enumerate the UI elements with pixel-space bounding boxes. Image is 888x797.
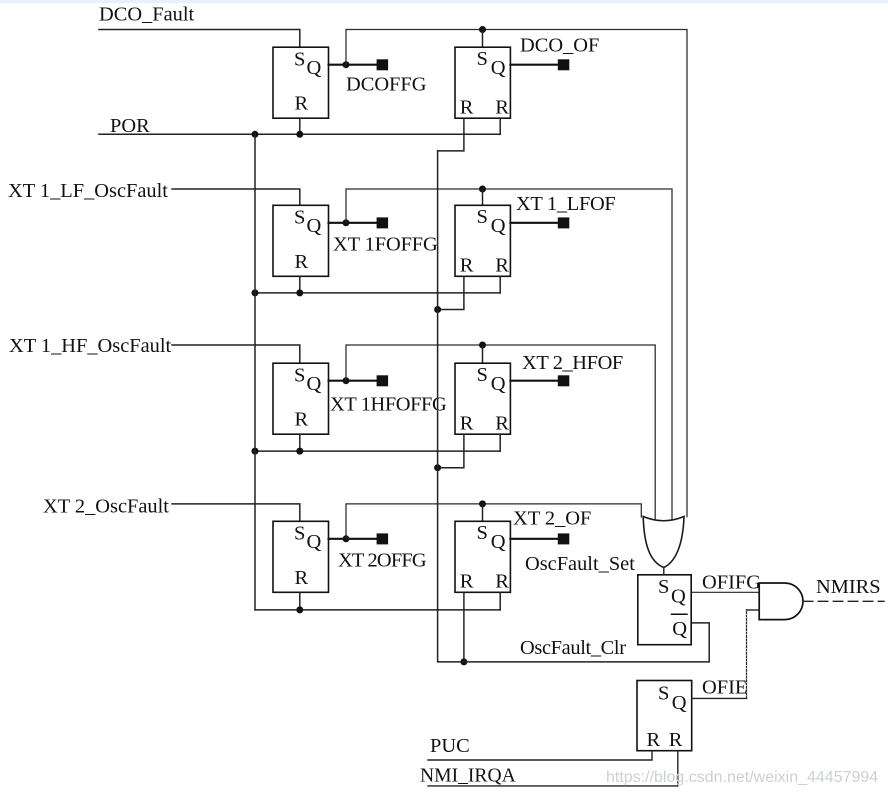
wire U6.R right pin to reset line xyxy=(499,434,501,451)
terminal square XT 2OFFG xyxy=(377,533,389,544)
svg-text:Q: Q xyxy=(491,373,506,395)
svg-text:R: R xyxy=(495,413,509,435)
junction OscFault_Clr U8.R xyxy=(460,658,467,665)
wire PUC to U10.R xyxy=(428,751,652,760)
svg-text:R: R xyxy=(460,97,474,119)
junction DCOFFG node xyxy=(343,61,350,68)
OR gate G1 (4-input, points down) xyxy=(643,517,684,568)
wire U8.S pin xyxy=(482,504,484,521)
svg-text:DCOFFG: DCOFFG xyxy=(346,74,427,96)
svg-text:OFIFG: OFIFG xyxy=(702,572,761,594)
svg-text:S: S xyxy=(477,522,488,544)
svg-text:XT 2_HFOF: XT 2_HFOF xyxy=(522,352,623,374)
wire U6.S pin xyxy=(482,345,484,363)
terminal square XT 2_HFOF xyxy=(558,375,570,386)
wire U2.Q to flag DCO_OF xyxy=(510,64,557,66)
wire DCOFFG up-over to U2.S and OR gate G1 xyxy=(346,30,687,517)
svg-text:R: R xyxy=(460,571,474,593)
svg-text:R: R xyxy=(295,93,309,115)
svg-text:XT 1HFOFFG: XT 1HFOFFG xyxy=(330,393,447,415)
junction U7.R row4 xyxy=(296,606,303,613)
svg-text:Q: Q xyxy=(307,57,322,79)
wire XT 1_LF_OscFault to U3.S xyxy=(172,189,300,205)
svg-text:R: R xyxy=(295,409,309,431)
latch U3 (XT 1FOFFG SR latch) xyxy=(273,205,329,276)
wire U4.R left pin to clear bus xyxy=(438,276,464,309)
wire NMI_IRQA to U10.R xyxy=(428,751,678,786)
terminal square XT 1_LFOF xyxy=(558,217,570,228)
wire U6.R left pin to clear bus xyxy=(438,434,464,468)
svg-text:R: R xyxy=(460,413,474,435)
terminal square XT 1HFOFFG xyxy=(377,375,389,386)
junction clear bus row2 xyxy=(434,306,441,313)
wire U2.R right pin to reset line xyxy=(499,118,501,134)
wire XT 1FOFFG up-over to U4.S and OR gate G1 xyxy=(346,189,672,520)
svg-text:XT 1_LFOF: XT 1_LFOF xyxy=(516,193,615,215)
junction U3.R row2 xyxy=(296,289,303,296)
wire U9.Q (OFIFG) to AND gate G2 xyxy=(691,591,759,593)
wire U4.S pin xyxy=(482,189,484,205)
wire U10.Q (OFIE) xyxy=(692,697,747,699)
wire U8.R right pin to reset line xyxy=(499,592,501,610)
junction clear bus row3 xyxy=(434,464,441,471)
svg-text:Q: Q xyxy=(307,531,322,553)
svg-text:S: S xyxy=(477,48,488,70)
svg-text:XT 1FOFFG: XT 1FOFFG xyxy=(333,233,438,255)
latch U6 (XT 2_HFOF SR latch) xyxy=(455,363,510,434)
svg-text:R: R xyxy=(295,251,309,273)
svg-text:OscFault_Set: OscFault_Set xyxy=(525,553,635,575)
latch U9 (OFIFG SR latch) xyxy=(638,575,691,645)
wire U4.R right pin to reset line xyxy=(499,276,501,293)
terminal square DCOFFG xyxy=(377,59,389,70)
svg-text:S: S xyxy=(294,207,305,229)
svg-text:XT 2OFFG: XT 2OFFG xyxy=(338,549,427,571)
wire U5.Q to flag XT 1HFOFFG xyxy=(329,380,377,382)
wire POR reset line row1 xyxy=(99,133,500,135)
svg-text:S: S xyxy=(477,206,488,228)
svg-text:XT 1_LF_OscFault: XT 1_LF_OscFault xyxy=(8,180,168,202)
wire U8.R left pin to OscFault_Clr line xyxy=(463,592,465,662)
wire XT 1_HF_OscFault to U5.S xyxy=(172,345,300,363)
svg-text:S: S xyxy=(294,49,305,71)
junction XT 2OFFG node xyxy=(343,535,350,542)
junction POR bus xyxy=(252,131,259,138)
svg-text:R: R xyxy=(495,97,509,119)
latch U10 (OFIE SR latch) xyxy=(637,681,692,752)
wire G1 output to U9.S xyxy=(663,568,665,575)
wire U1.R pin to reset line xyxy=(299,118,301,134)
wire U6.Q to flag XT 2_HFOF xyxy=(510,380,557,382)
svg-text:DCO_OF: DCO_OF xyxy=(520,35,599,57)
junction U8.S xyxy=(479,500,486,507)
svg-text:XT 2_OF: XT 2_OF xyxy=(513,508,591,530)
svg-text:NMI_IRQA: NMI_IRQA xyxy=(420,766,516,787)
svg-text:PUC: PUC xyxy=(430,735,470,757)
svg-text:OscFault_Clr: OscFault_Clr xyxy=(520,637,626,659)
wire OFIE to G2 lower input (dotted riser) xyxy=(746,610,748,698)
wire XT 1HFOFFG up-over to U6.S and OR gate G1 xyxy=(346,345,655,521)
junction XT 1HFOFFG node xyxy=(343,377,350,384)
svg-text:S: S xyxy=(294,365,305,387)
wire U2.R left pin to clear bus xyxy=(438,118,464,151)
wire NMIRS dashed output xyxy=(803,600,884,602)
latch U1 (DCOFFG SR latch) xyxy=(273,47,329,118)
junction U6.S xyxy=(479,342,486,349)
wire U5.R pin to reset line xyxy=(299,434,301,451)
wire OscFault_Clr bus: Qbar of U9 to right-latch left R pins xyxy=(438,151,710,662)
junction U2.S xyxy=(479,26,486,33)
svg-text:DCO_Fault: DCO_Fault xyxy=(99,3,194,25)
wire U8.Q to flag XT 2_OF xyxy=(510,538,557,540)
terminal square DCO_OF xyxy=(558,59,570,70)
svg-text:Q: Q xyxy=(491,215,506,237)
wire U1.Q to flag DCOFFG xyxy=(329,64,377,66)
wire U4.Q to flag XT 1_LFOF xyxy=(510,222,557,224)
wire U2.S pin xyxy=(482,30,484,48)
wire POR bus vertical xyxy=(254,134,256,610)
AND gate G2 xyxy=(759,583,803,620)
svg-text:XT 2_OscFault: XT 2_OscFault xyxy=(43,495,169,517)
wire U7.Q to flag XT 2OFFG xyxy=(329,538,377,540)
svg-text:OFIE: OFIE xyxy=(702,677,747,699)
svg-text:R: R xyxy=(495,571,509,593)
svg-text:Q: Q xyxy=(491,531,506,553)
svg-text:https://blog.csdn.net/weixin_4: https://blog.csdn.net/weixin_44457994 xyxy=(606,769,878,786)
svg-text:R: R xyxy=(669,729,683,751)
svg-text:Q: Q xyxy=(491,57,506,79)
terminal square XT 1FOFFG xyxy=(377,217,389,228)
wire DCO_Fault to U1.S xyxy=(99,30,300,48)
junction POR bus row2 xyxy=(252,289,259,296)
top blue strip xyxy=(0,0,888,3)
svg-text:R: R xyxy=(460,255,474,277)
svg-text:NMIRS: NMIRS xyxy=(816,576,881,598)
svg-text:Q: Q xyxy=(672,618,687,640)
latch U5 (XT 1HFOFFG SR latch) xyxy=(273,363,329,434)
junction U4.S xyxy=(479,186,486,193)
wire U7.R pin to reset line xyxy=(299,592,301,610)
latch U8 (XT 2_OF SR latch) xyxy=(455,521,510,592)
svg-text:Q: Q xyxy=(307,215,322,237)
latch U7 (XT 2OFFG SR latch) xyxy=(273,521,329,592)
wire XT 2_OscFault to U7.S xyxy=(172,504,300,521)
wire POR reset line row3 xyxy=(255,450,500,452)
svg-text:XT 1_HF_OscFault: XT 1_HF_OscFault xyxy=(9,335,172,357)
svg-text:Q: Q xyxy=(672,692,687,714)
wire POR reset line row4 xyxy=(255,609,500,611)
wire U3.Q to flag XT 1FOFFG xyxy=(329,222,377,224)
wire U3.R pin to reset line xyxy=(299,276,301,293)
latch U2 (DCO_OF SR latch) xyxy=(455,47,510,118)
junction U5.R row3 xyxy=(296,448,303,455)
svg-text:Q: Q xyxy=(307,373,322,395)
svg-text:S: S xyxy=(658,683,669,705)
svg-text:R: R xyxy=(295,567,309,589)
wire POR reset line row2 xyxy=(255,292,500,294)
wire XT 2OFFG up-over to U8.S and OR gate G1 xyxy=(346,504,641,539)
terminal square XT 2_OF xyxy=(558,533,570,544)
svg-text:S: S xyxy=(658,576,669,598)
junction U1.R xyxy=(296,131,303,138)
svg-text:R: R xyxy=(495,255,509,277)
junction POR bus row3 xyxy=(252,448,259,455)
svg-text:R: R xyxy=(647,729,661,751)
latch U4 (XT 1_LFOF SR latch) xyxy=(455,205,510,276)
svg-text:Q: Q xyxy=(671,586,686,608)
svg-text:S: S xyxy=(477,364,488,386)
svg-text:S: S xyxy=(294,523,305,545)
junction XT 1FOFFG node xyxy=(343,219,350,226)
